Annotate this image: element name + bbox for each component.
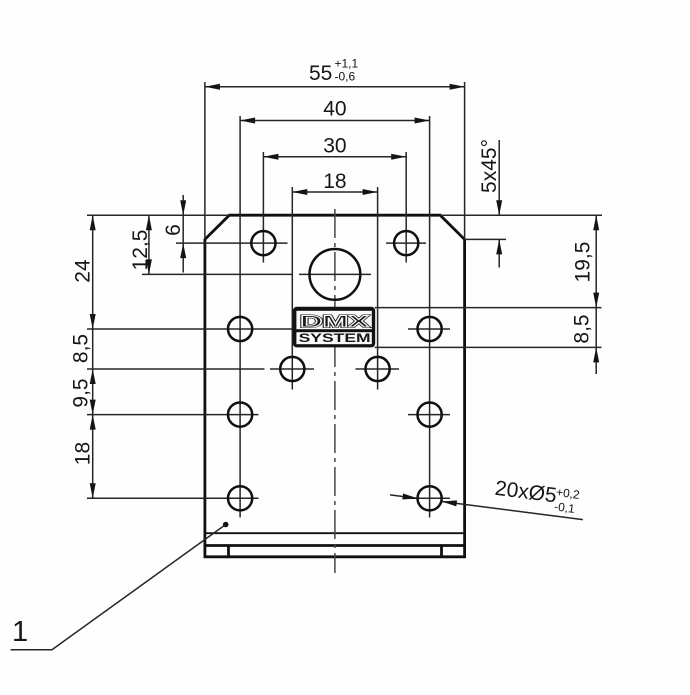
dimension 55 line [205,86,465,88]
svg-text:5x45°: 5x45° [478,139,501,193]
extension line logo top [375,307,602,309]
svg-text:18: 18 [72,442,95,465]
bottom tick left [227,546,230,557]
extension line big hole axis [142,273,293,275]
dimension 6 stem [182,195,184,273]
part label leader [11,525,226,650]
hole row1 right [394,231,418,255]
centerline row5 right hole [408,497,450,499]
chamfer dimension lower stem [498,239,500,267]
extension line col 40 left [239,116,241,518]
svg-text:55: 55 [309,62,332,85]
svg-text:-0,6: -0,6 [335,70,356,84]
svg-text:18: 18 [323,170,346,193]
svg-text:6: 6 [162,224,185,236]
plate outline [205,215,465,557]
svg-text:20xØ5: 20xØ5 [494,477,558,508]
extension line col 18 left [291,187,293,390]
extension line row3 [87,368,265,370]
hole row5 left [228,486,252,510]
extension line logo bottom [375,346,602,348]
svg-text:8,5: 8,5 [70,334,93,363]
svg-text:SYSTEM: SYSTEM [299,333,371,345]
centerline row2 right hole [408,328,450,330]
main vertical centerline [334,205,336,573]
chamfer dimension upper stem [498,140,500,215]
right dimension chain line [595,215,597,374]
extension line plate left edge up [204,82,206,239]
svg-text:40: 40 [323,98,346,121]
extension line plate right edge up [464,82,466,239]
left dimension chain line [92,215,94,498]
hole row4 right [418,403,442,427]
centerline row1 right hole [386,242,426,244]
svg-text:DMX: DMX [300,313,369,331]
centerline row4 right hole [408,414,450,416]
bottom groove line upper [205,532,465,534]
hole row2 left [228,317,252,341]
extension line top edge right [440,214,602,216]
svg-text:8,5: 8,5 [571,314,594,343]
svg-text:12,5: 12,5 [129,230,152,271]
svg-text:+1,1: +1,1 [335,57,359,71]
extension line col 40 right [429,116,431,518]
dimension 12,5 line [148,215,150,274]
extension line top edge left [87,214,229,216]
DMX SYSTEM logo [293,307,375,348]
bottom tick right [440,546,443,557]
svg-text:9,5: 9,5 [70,378,93,407]
extension line col 18 right [377,187,379,390]
hole row5 right [418,486,442,510]
svg-text:30: 30 [323,134,346,157]
big center hole [310,249,361,300]
extension line row2 [87,328,294,330]
extension line row1 [176,242,288,244]
hole row3 right [366,357,390,381]
svg-text:1: 1 [12,616,28,648]
svg-text:24: 24 [72,259,95,283]
dimension 30 line [263,156,406,158]
bottom groove line lower [205,544,465,547]
svg-text:-0,1: -0,1 [553,499,576,516]
svg-text:19,5: 19,5 [572,242,595,283]
extension line col 30 right [405,152,407,263]
extension line row5 [87,497,259,499]
hole note leader [390,464,587,523]
part label leader dot [223,522,229,528]
hole row2 right [418,317,442,341]
dimension 18 top line [292,191,377,193]
hole row3 left [280,357,304,381]
dimension 40 line [240,120,430,122]
extension line col 30 left [262,152,264,263]
hole row1 left [251,231,275,255]
hole row4 left [228,403,252,427]
extension line chamfer right [465,238,506,240]
extension line row4 [87,414,259,416]
